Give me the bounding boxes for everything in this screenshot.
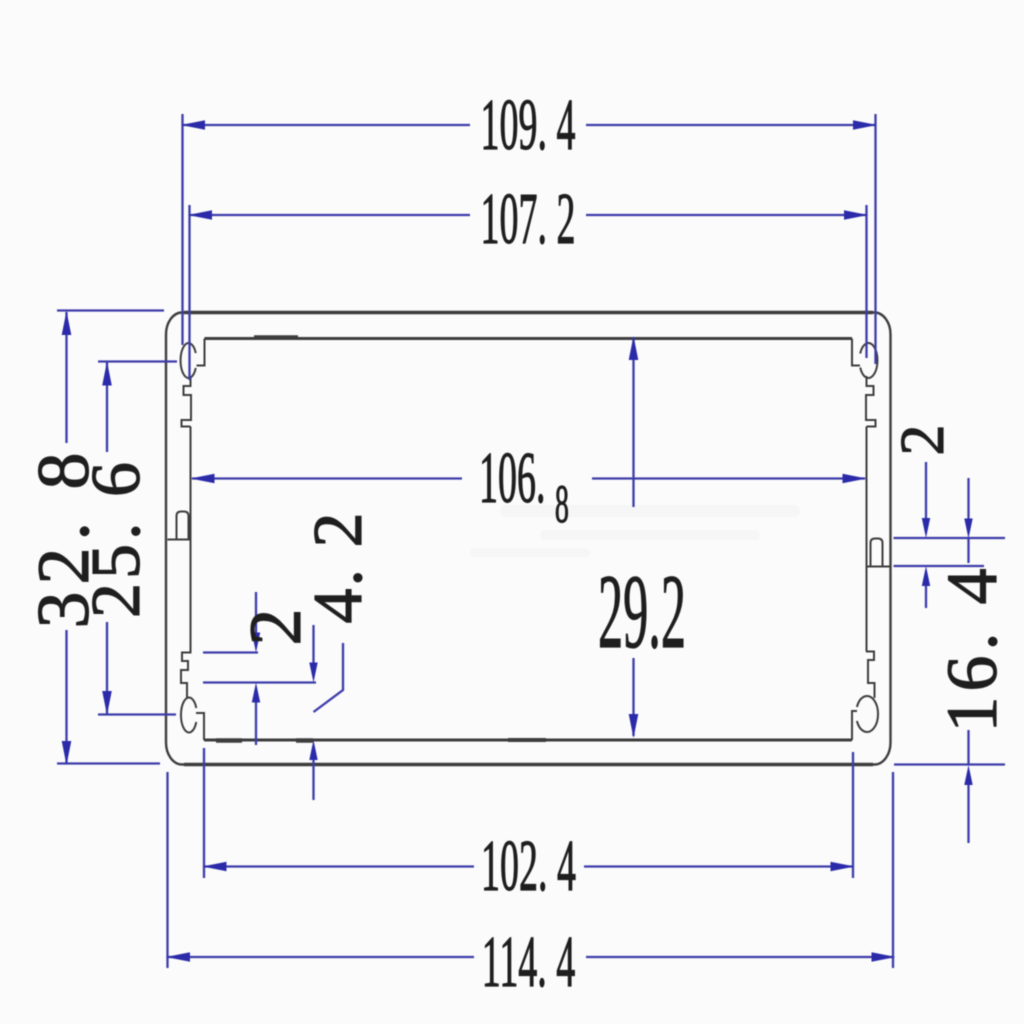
svg-text:16. 4: 16. 4 bbox=[932, 564, 1012, 733]
dim 25.6 arrow down bbox=[102, 691, 112, 715]
dim 25.6 line bbox=[106, 362, 108, 452]
dim 114.4 arrow right bbox=[872, 952, 896, 962]
left clip hat baseline bbox=[168, 539, 191, 541]
dim 114.4 ext left bbox=[166, 772, 168, 968]
inner bottom edge dark dash 2 bbox=[296, 738, 313, 743]
outer top edge (thick) bbox=[184, 311, 873, 315]
svg-text:2: 2 bbox=[889, 425, 957, 456]
dim 2 right arrow down bbox=[922, 518, 930, 538]
inner top edge dark dash bbox=[254, 335, 298, 340]
svg-text:2: 2 bbox=[235, 609, 317, 646]
dim 4.2 arrow up bbox=[309, 740, 317, 760]
dim 2 right shafts bbox=[925, 462, 927, 520]
dim 109.4 line bbox=[183, 124, 471, 126]
svg-text:106. 8: 106. 8 bbox=[479, 437, 569, 535]
dim 32.8 ext top bbox=[57, 309, 164, 311]
boss bottom-right: serration teeth bbox=[866, 652, 875, 699]
dim 107.2 arrow left bbox=[188, 210, 212, 220]
dim 106.8 line bbox=[192, 477, 462, 479]
boss top-right: screw ellipse bbox=[860, 343, 877, 378]
dim 2 right ext lower bbox=[894, 565, 985, 567]
dim 16.4 arrow up bbox=[964, 765, 972, 785]
dim 106.8 arrow left bbox=[191, 474, 215, 484]
outer bottom edge (thick) bbox=[184, 763, 873, 767]
dim 2 left arrow down bbox=[252, 633, 260, 653]
dim 102.4 line bbox=[204, 865, 474, 867]
arrowheads bbox=[62, 120, 973, 962]
boss top-right: notch bbox=[852, 339, 860, 366]
dim 107.2 arrow right bbox=[844, 210, 868, 220]
dim 106.8 arrow right bbox=[843, 474, 867, 484]
dim 102.4 ext left bbox=[203, 748, 205, 878]
dim 2 right arrow up bbox=[922, 566, 930, 586]
dim 32.8 ext bottom bbox=[57, 762, 160, 764]
outer contour bbox=[166, 313, 891, 765]
dim 25.6 ext bottom bbox=[98, 713, 176, 715]
dim 29.2 line lower bbox=[632, 658, 634, 736]
dim 102.4 ext right bbox=[852, 752, 854, 878]
dim 114.4 line bbox=[168, 956, 475, 958]
boss bottom-left: screw ellipse bbox=[181, 698, 196, 733]
svg-text:25. 6: 25. 6 bbox=[78, 458, 155, 618]
svg-text:102. 4: 102. 4 bbox=[481, 825, 576, 907]
boss bottom-left: serration teeth bbox=[181, 653, 191, 699]
dim 16.4 shafts bbox=[967, 478, 969, 519]
right clip hat baseline bbox=[867, 566, 890, 568]
left clip hat bbox=[177, 512, 189, 540]
svg-text:109. 4: 109. 4 bbox=[481, 84, 576, 166]
boss top-right: serration teeth bbox=[866, 376, 876, 427]
dim 114.4 arrow left bbox=[166, 952, 190, 962]
boss bottom-left: notch bbox=[196, 713, 204, 740]
dim 32.8 arrow up bbox=[62, 311, 72, 335]
dim 109.4 arrow right bbox=[853, 120, 877, 130]
dim 2 left arrow up bbox=[252, 683, 260, 703]
dim 32.8 line bbox=[65, 312, 67, 443]
boss bottom-right: screw ellipse bbox=[857, 696, 878, 732]
dim 4.2 arrow down bbox=[309, 663, 317, 683]
dim 16.4 arrow down bbox=[964, 519, 972, 539]
right inner wall bbox=[866, 427, 868, 652]
svg-text:29.2: 29.2 bbox=[598, 552, 686, 670]
dim 29.2 line upper bbox=[632, 337, 634, 507]
inner bottom edge bbox=[204, 739, 852, 742]
dim 32.8 arrow down bbox=[62, 741, 72, 765]
dim 102.4 arrow right bbox=[831, 862, 855, 872]
svg-text:114. 4: 114. 4 bbox=[482, 921, 575, 1003]
svg-text:107. 2: 107. 2 bbox=[481, 178, 576, 260]
dim 2 left ext upper bbox=[203, 651, 258, 653]
dimensions bbox=[57, 114, 1005, 968]
dim 102.4 arrow left bbox=[203, 862, 227, 872]
left inner wall bbox=[190, 427, 192, 654]
inner top edge bbox=[205, 337, 853, 340]
right clip hat bbox=[871, 539, 883, 567]
dim 107.2 ext left bbox=[188, 205, 190, 380]
dim 25.6 arrow up bbox=[102, 362, 112, 386]
watermark smudge bbox=[470, 505, 800, 557]
dim 4.2 leader bbox=[314, 643, 344, 712]
dim 2 left shafts bbox=[255, 592, 257, 634]
dim 2 right ext upper bbox=[894, 537, 1006, 539]
dim 114.4 ext right bbox=[892, 772, 894, 968]
dim 29.2 arrow down bbox=[629, 714, 639, 738]
dim 4.2 shafts bbox=[312, 625, 314, 664]
boss top-left: serration teeth bbox=[182, 376, 192, 427]
boss bottom-right: notch bbox=[852, 711, 857, 740]
inner bottom edge dark dash 3 bbox=[508, 738, 546, 742]
inner bottom edge dark dash 1 bbox=[216, 738, 242, 743]
dim 2 left ext lower bbox=[203, 681, 316, 683]
dim 25.6 ext top bbox=[98, 360, 177, 362]
dim 109.4 arrow left bbox=[181, 120, 205, 130]
dim 29.2 arrow up bbox=[629, 336, 639, 360]
dim 109.4 ext left bbox=[181, 114, 183, 345]
boss top-left: screw ellipse bbox=[181, 343, 196, 378]
profile: outer shell bbox=[166, 313, 891, 765]
dim 16.4 ext bottom bbox=[894, 763, 1005, 765]
dim 109.4 ext right bbox=[874, 114, 876, 364]
boss top-left: notch bbox=[197, 339, 205, 366]
dim 107.2 ext right bbox=[865, 205, 867, 358]
svg-text:4. 2: 4. 2 bbox=[300, 511, 377, 624]
dim 107.2 line bbox=[190, 214, 471, 216]
